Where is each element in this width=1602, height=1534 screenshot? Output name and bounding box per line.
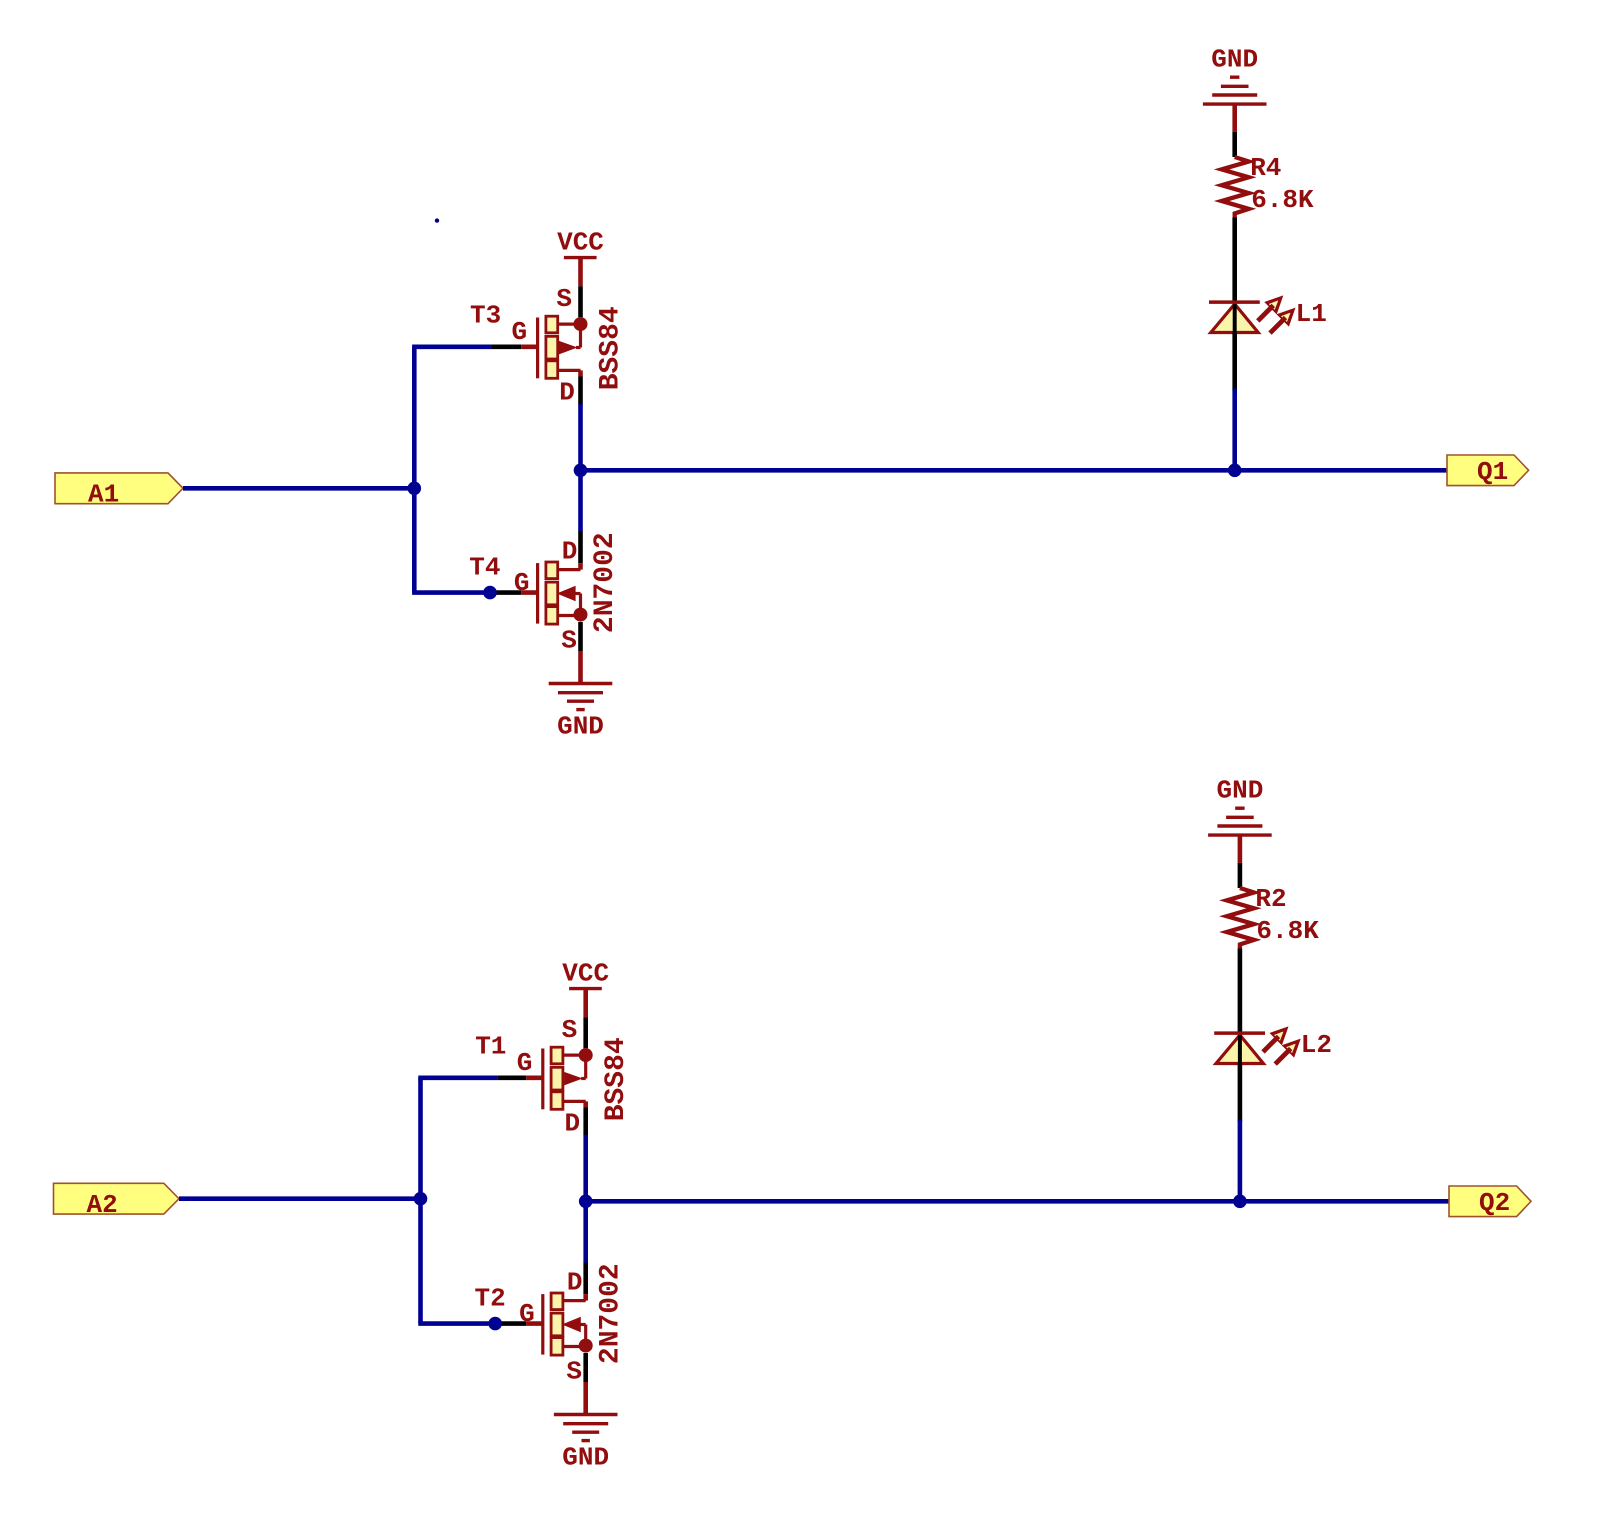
svg-text:D: D: [567, 1267, 583, 1297]
transistor T1 PMOS BSS84: [475, 959, 632, 1139]
resistor R4 6.8K: [1222, 153, 1314, 218]
svg-text:GND: GND: [562, 1443, 609, 1473]
transistor T4 NMOS 2N7002: [469, 531, 621, 741]
junction A2 net: [414, 1192, 428, 1206]
svg-text:BSS84: BSS84: [596, 306, 627, 390]
transistor T3 PMOS BSS84: [470, 228, 627, 408]
node A1 input flag: [55, 473, 183, 510]
svg-text:L1: L1: [1296, 299, 1327, 329]
svg-text:T3: T3: [470, 301, 501, 331]
wire R2 to L2: [1238, 949, 1243, 1034]
junction output net at drains: [579, 1195, 593, 1209]
svg-text:S: S: [556, 284, 572, 314]
svg-text:G: G: [517, 1048, 533, 1078]
svg-text:T4: T4: [469, 552, 500, 582]
junction output net at L2: [1233, 1195, 1247, 1209]
svg-text:VCC: VCC: [557, 228, 604, 258]
resistor R2 6.8K: [1227, 884, 1319, 949]
node Q2 output flag: [1449, 1186, 1531, 1218]
wire GND to R2: [1238, 863, 1243, 888]
wire gate net vertical: [418, 1078, 423, 1324]
svg-text:GND: GND: [1211, 45, 1258, 75]
svg-text:G: G: [519, 1299, 535, 1329]
svg-text:S: S: [562, 1015, 578, 1045]
wire gate net to T2 gate: [418, 1321, 495, 1326]
wire gate net to T4 gate: [412, 590, 490, 595]
svg-text:A1: A1: [88, 480, 119, 510]
wire output net vertical: [578, 404, 583, 532]
wire L1 to output net: [1232, 333, 1237, 391]
LED L1: [1209, 296, 1327, 333]
wire A2 to gate net: [179, 1196, 421, 1201]
svg-text:VCC: VCC: [562, 959, 609, 989]
svg-text:2N7002: 2N7002: [590, 532, 621, 633]
svg-text:S: S: [566, 1356, 582, 1386]
junction A1 net: [408, 482, 422, 496]
svg-text:D: D: [559, 378, 575, 408]
svg-text:L2: L2: [1301, 1030, 1332, 1060]
transistor T2 NMOS 2N7002: [475, 1262, 627, 1472]
wire A1 to gate net: [183, 486, 414, 491]
svg-text:Q1: Q1: [1477, 457, 1508, 487]
wire gate net vertical: [412, 347, 417, 593]
svg-text:S: S: [561, 625, 577, 655]
svg-text:R2: R2: [1255, 884, 1286, 914]
ground GND (top, mirrored): [1208, 776, 1272, 863]
svg-text:2N7002: 2N7002: [595, 1263, 626, 1364]
svg-text:A2: A2: [87, 1190, 118, 1220]
svg-text:BSS84: BSS84: [601, 1037, 632, 1121]
svg-text:6.8K: 6.8K: [1251, 185, 1314, 215]
svg-text:G: G: [514, 568, 530, 598]
node A2 input flag: [54, 1183, 180, 1220]
ground GND (top, mirrored): [1203, 45, 1267, 132]
node Q1 output flag: [1447, 455, 1529, 487]
wire gate net to T3 gate: [412, 344, 492, 349]
stray dot artifact: [435, 218, 439, 222]
svg-text:6.8K: 6.8K: [1256, 916, 1319, 946]
wire output net to Q1: [581, 468, 1448, 473]
svg-text:T2: T2: [475, 1283, 506, 1313]
LED L2: [1214, 1027, 1332, 1064]
wire R4 to L1: [1232, 218, 1237, 303]
wire gate net to T1 gate: [418, 1076, 497, 1081]
svg-text:Q2: Q2: [1479, 1188, 1510, 1218]
svg-text:GND: GND: [1216, 776, 1263, 806]
junction output net at L1: [1228, 464, 1242, 478]
svg-text:T1: T1: [475, 1032, 506, 1062]
svg-text:G: G: [511, 317, 527, 347]
wire GND to R4: [1232, 132, 1237, 157]
wire output net vertical: [583, 1135, 588, 1263]
junction T4 gate: [483, 586, 497, 600]
junction output net at drains: [574, 464, 588, 478]
wire output net to Q2: [586, 1199, 1449, 1204]
svg-text:R4: R4: [1250, 153, 1281, 183]
svg-text:D: D: [562, 536, 578, 566]
svg-text:GND: GND: [557, 712, 604, 742]
wire L2 to output net: [1238, 1064, 1243, 1122]
junction T2 gate: [488, 1317, 502, 1331]
svg-text:D: D: [564, 1109, 580, 1139]
